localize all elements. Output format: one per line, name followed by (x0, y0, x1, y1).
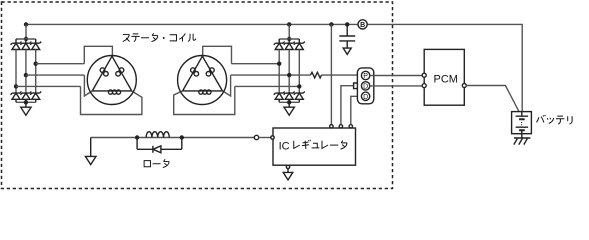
wire D link to IC regulator (341, 86, 354, 125)
node B+ left junction (24, 22, 28, 26)
wire B+ top bus left segment (26, 23, 358, 25)
diode left negative 3 (30, 92, 41, 103)
connector rotor inline (254, 135, 258, 139)
wire stator2 lead bottom (174, 86, 235, 114)
connector 3P (357, 68, 373, 104)
rotor field coil L1 (91, 137, 255, 139)
node capacitor tap (345, 22, 349, 26)
diode left positive 3 (30, 39, 41, 50)
node left negative bar (24, 100, 28, 104)
ground battery (514, 134, 531, 145)
battery (512, 112, 532, 145)
wire stator1 lead left (84, 75, 92, 96)
node right negative bar (287, 100, 291, 104)
diode right negative 2 (284, 92, 295, 103)
stator coil 2 circle (178, 56, 227, 105)
svg-text:D: D (363, 84, 368, 91)
diode left positive 2 (20, 39, 31, 50)
diode right negative 3 (294, 92, 305, 103)
diode right positive 2 (284, 39, 295, 50)
capacitor C1 (339, 24, 355, 54)
PCM box (424, 49, 464, 105)
ground left rectifier (21, 102, 31, 115)
wire phase U left run (36, 63, 85, 65)
node left diode bar junction (24, 37, 28, 41)
diode left negative 1 (11, 92, 22, 103)
wire PCM to battery (466, 86, 519, 112)
label rotor (144, 159, 169, 167)
wire phase V right run with resistor (231, 74, 311, 76)
wire stator2 lead right (223, 75, 231, 96)
diode rotor flyback (137, 138, 182, 153)
ground right rectifier (284, 102, 294, 115)
diode left negative 2 (20, 92, 31, 103)
wire phase U right run (232, 63, 280, 65)
diode right positive 3 (294, 39, 305, 50)
wire stator1 lead bottom (81, 86, 142, 114)
wire phase V left run (26, 74, 85, 76)
wire B+ sense down to IC regulator (330, 24, 332, 124)
wire left phase verticals (16, 50, 36, 94)
diode left positive 1 (11, 39, 22, 50)
wire right positive diode top bar (279, 38, 299, 40)
svg-text:PCM: PCM (434, 74, 458, 86)
label stator coil (123, 33, 196, 41)
node phase W left (14, 84, 18, 88)
wire stator1 lead top (84, 46, 112, 63)
IC regulator U1 (273, 128, 356, 165)
wire D to PCM (370, 85, 422, 87)
node phase V left (24, 73, 28, 77)
node phase U left (34, 62, 38, 66)
terminals IC regulator top (330, 125, 333, 128)
node phase V right (287, 73, 291, 77)
dashed border frame (2, 2, 393, 189)
wire stub to right positive diode bar (288, 24, 290, 39)
node phase U right (277, 62, 281, 66)
ground rotor (85, 138, 96, 165)
node IC sense tap (329, 22, 333, 26)
terminal B (358, 20, 367, 29)
stator coil 2 delta winding (183, 56, 223, 94)
wire L link to IC regulator (351, 96, 362, 124)
wire phase W right run (235, 85, 299, 87)
diode right negative 1 (274, 92, 285, 103)
terminal stub middle (354, 83, 358, 89)
wire stub to left positive diode bar (25, 24, 27, 39)
label battery (537, 115, 573, 124)
node right diode bar junction (287, 37, 291, 41)
svg-text:IC: IC (279, 141, 290, 153)
ground IC regulator (283, 165, 293, 180)
wire left positive diode top bar (16, 38, 36, 40)
wire left negative bar (16, 101, 36, 103)
svg-text:P: P (363, 73, 368, 80)
wire right phase verticals (279, 50, 299, 94)
wire phase W left run (16, 85, 81, 87)
wire stator2 lead top (203, 46, 232, 63)
wire right negative bar (279, 101, 299, 103)
stator coil 1 circle (87, 56, 136, 105)
resistor stator pulse (311, 72, 322, 78)
diode right positive 1 (274, 39, 285, 50)
svg-text:D: D (363, 94, 368, 101)
wire B+ top bus right segment (367, 24, 522, 111)
stator coil 1 delta winding (92, 56, 131, 94)
node phase W right (297, 84, 301, 88)
node B+ right junction (287, 22, 291, 26)
wire P to PCM (370, 75, 422, 77)
svg-text:B: B (360, 22, 365, 29)
